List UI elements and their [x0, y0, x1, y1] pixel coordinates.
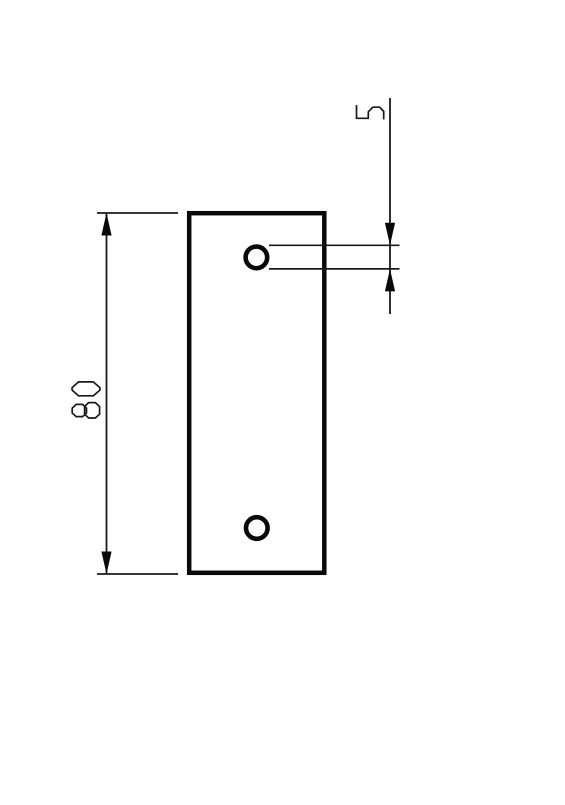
hole bottom	[246, 517, 268, 539]
hole top	[246, 247, 268, 269]
extension line bottom (dim 5, from hole tangent)	[269, 268, 400, 270]
dimension text 5 (rotated)	[357, 106, 384, 119]
plate outline (rectangle)	[189, 213, 324, 573]
dimension line 80	[106, 213, 108, 574]
extension line top (dim 5, from hole tangent)	[269, 244, 400, 246]
dimension line 5 (vertical)	[389, 98, 391, 314]
dimension text 80 (rotated, glyph 0)	[72, 382, 100, 396]
arrow up (dim 80 top)	[101, 213, 111, 236]
arrow down (dim 80 bottom)	[101, 552, 111, 575]
arrow up (dim 5, below bottom line)	[385, 269, 395, 292]
extension line top (dim 80)	[97, 212, 178, 214]
extension line bottom (dim 80)	[97, 573, 178, 575]
arrow down (dim 5, above top line)	[385, 223, 395, 246]
dimension text 80 (rotated, glyph 8)	[72, 403, 99, 418]
